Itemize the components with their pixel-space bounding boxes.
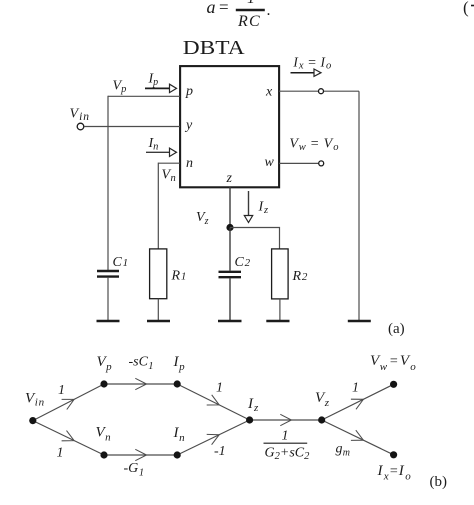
SFG arrowhead In-Iz [207,434,220,444]
equation number parenthesis [463,0,474,17]
svg-text:-1: -1 [214,444,226,459]
SFG node Ip [174,380,181,387]
ground for output load [348,320,371,323]
output terminal w [319,161,324,166]
svg-text:=: = [219,0,229,17]
svg-text:R1: R1 [171,269,187,284]
current arrow Iz [244,191,252,223]
SFG edge Iz to Vz [250,419,322,421]
wire pin n horizontal [158,162,180,164]
SFG arrowhead Vp-Ip [135,378,146,389]
SFG edge Vin to Vn [33,421,104,455]
svg-text:1: 1 [352,381,359,396]
SFG arrowhead Ip-Iz [207,395,220,405]
svg-text:(b): (b) [430,474,448,490]
svg-text:C2: C2 [235,255,251,270]
ground for C1 [97,320,120,323]
svg-text:z: z [226,171,233,186]
wire output down to ground [358,91,360,321]
current arrow Ip [145,84,177,92]
svg-text:Ip: Ip [173,354,186,373]
DBTA block U1 [180,66,279,187]
svg-text:Vw=Vo: Vw=Vo [370,353,416,373]
SFG node Iz [246,416,253,423]
capacitor C1 [97,271,119,321]
SFG edge In to Iz [177,420,249,455]
wire Vp vertical down to C1 [107,96,109,270]
svg-text:G2+sC2: G2+sC2 [265,446,311,463]
wire node to C2 [229,228,231,271]
svg-text:Vp: Vp [97,354,113,373]
SFG arrowhead Vz-Vw [351,399,364,409]
SFG arrowhead Vz-Ix [351,430,364,440]
svg-text:1: 1 [247,0,255,7]
wire pin w to output [279,162,319,164]
svg-text:Vn: Vn [96,425,112,444]
svg-text:Vz: Vz [315,390,330,409]
svg-text:(: ( [463,0,469,17]
svg-text:Vn: Vn [162,168,176,185]
output terminal x [319,89,324,94]
SFG edge Vz to Vw [322,384,394,420]
svg-text:RC: RC [237,13,261,30]
svg-text:1: 1 [58,383,65,398]
svg-text:w: w [265,155,275,170]
SFG edge Vz to Ix [322,420,394,455]
SFG arrowhead Vin-Vn [62,431,75,441]
SFG edge Vp to Ip [104,383,177,385]
svg-text:-sC1: -sC1 [129,355,154,373]
svg-text:Vp: Vp [113,79,127,96]
SFG node Vin [29,417,36,424]
ground for R2 [266,320,289,323]
svg-text:1: 1 [282,429,289,444]
SFG node Vw [390,381,397,388]
wire Vin to pin y [84,126,180,128]
wire Vn vertical down to R1 [157,163,159,249]
SFG edge Ip to Iz [177,384,249,420]
svg-text:n: n [186,156,193,171]
svg-text:Ix=Io: Ix=Io [377,463,412,483]
SFG node Vp [100,380,107,387]
svg-text:p: p [185,84,193,99]
SFG node In [174,451,181,458]
SFG node Vn [100,451,107,458]
SFG edge Vin to Vp [33,384,104,421]
input terminal Vin [77,123,84,130]
svg-text:y: y [184,118,193,133]
wire pin x to output [279,90,359,92]
wire node to R2 branch [230,228,280,250]
capacitor C2 [219,272,242,321]
SFG arrowhead Vin-Vp [62,399,75,409]
svg-text:Vw=Vo: Vw=Vo [289,137,338,154]
svg-text:Vin: Vin [25,391,45,409]
svg-text:gm: gm [336,442,351,459]
svg-text:Vz: Vz [196,210,209,227]
svg-text:In: In [173,425,186,444]
wire pin z down to node [229,187,231,228]
SFG node Vz [318,416,325,423]
svg-text:In: In [148,136,159,153]
svg-text:Ix=Io: Ix=Io [292,55,331,72]
current arrow Ix [291,69,322,76]
svg-text:Iz: Iz [258,200,269,217]
SFG arrowhead Iz-Vz [280,414,291,425]
svg-text:1: 1 [57,446,64,461]
svg-text:.: . [267,2,271,19]
ground for R1 [147,320,170,323]
node Vz junction dot [226,224,233,231]
svg-text:a: a [207,0,216,17]
SFG arrowhead Vn-In [135,449,146,460]
resistor R1 [150,249,167,321]
svg-text:R2: R2 [292,269,308,284]
svg-text:x: x [265,85,273,100]
svg-text:Vin: Vin [70,107,91,124]
svg-text:(a): (a) [388,321,405,337]
equation a = 1/RC [207,0,271,30]
svg-text:Iz: Iz [247,396,259,414]
svg-text:1: 1 [216,381,223,396]
wire Vp horizontal to pin p [108,95,180,97]
gain label 1/(G2+sC2) on Iz-Vz [264,429,311,463]
svg-text:C1: C1 [113,255,129,270]
current arrow In [146,148,177,156]
SFG node Ix [390,451,397,458]
SFG edge Vn to In [104,454,177,456]
svg-text:Ip: Ip [148,72,159,89]
svg-text:DBTA: DBTA [183,38,245,59]
resistor R2 [272,249,289,321]
ground for C2 [218,320,242,323]
svg-text:-G1: -G1 [124,461,145,479]
